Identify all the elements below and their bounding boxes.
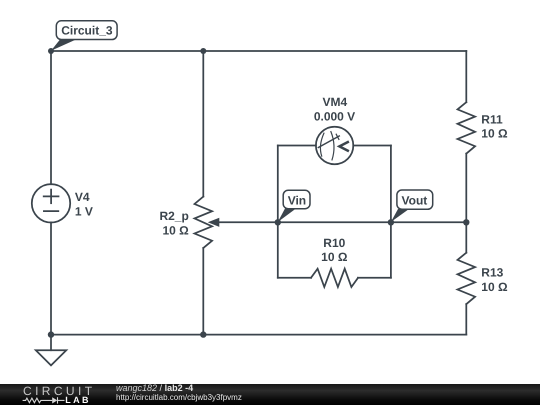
resistor R11 bbox=[458, 102, 476, 153]
junction: middle-right node bbox=[463, 219, 469, 225]
potentiometer R2_p bbox=[195, 197, 220, 248]
wire: R10 left lead bbox=[278, 277, 311, 279]
junction: bottom node at R2_p bbox=[200, 331, 206, 337]
node label Vout bbox=[391, 190, 433, 222]
svg-text:10 Ω: 10 Ω bbox=[321, 250, 348, 264]
svg-text:Vout: Vout bbox=[402, 194, 428, 208]
svg-text:10 Ω: 10 Ω bbox=[481, 280, 508, 294]
svg-text:R13: R13 bbox=[481, 266, 503, 280]
footer url line bbox=[116, 393, 242, 402]
wire: measurement loop left vertical bbox=[277, 146, 279, 278]
wire: measurement loop right vertical bbox=[390, 146, 392, 278]
wire: bottom rail bbox=[51, 334, 466, 336]
CircuitLab logo bbox=[0, 384, 100, 405]
svg-text:0.000 V: 0.000 V bbox=[314, 110, 355, 124]
junction: bottom-left node bbox=[48, 331, 54, 337]
node flag Circuit_3 bbox=[51, 21, 117, 51]
svg-text:V4: V4 bbox=[75, 190, 90, 204]
wire: right rail between R11 and middle node bbox=[465, 154, 467, 223]
node label Vin bbox=[278, 190, 310, 222]
ground bbox=[36, 335, 67, 366]
svg-text:10 Ω: 10 Ω bbox=[481, 127, 508, 141]
junction: top node at R2_p bbox=[200, 48, 206, 54]
svg-text:VM4: VM4 bbox=[323, 95, 348, 109]
wire: right rail bottom segment bbox=[465, 304, 467, 335]
wire: left rail upper segment bbox=[50, 51, 52, 184]
footer credit line bbox=[116, 384, 193, 393]
wire: left rail lower segment bbox=[50, 222, 52, 334]
wire: right rail between middle node and R13 bbox=[465, 222, 467, 252]
wire: VM4 right lead bbox=[353, 145, 391, 147]
svg-text:R11: R11 bbox=[481, 112, 503, 126]
wire: middle rail (wiper to right rail) bbox=[216, 221, 466, 223]
wire: R10 right lead bbox=[358, 277, 391, 279]
svg-text:10 Ω: 10 Ω bbox=[162, 223, 189, 237]
voltmeter VM4 bbox=[316, 127, 353, 164]
resistor R13 bbox=[458, 253, 476, 304]
voltage source V4 bbox=[32, 184, 70, 222]
svg-text:Vin: Vin bbox=[288, 193, 306, 207]
svg-text:R10: R10 bbox=[323, 236, 345, 250]
svg-text:R2_p: R2_p bbox=[159, 209, 188, 223]
junction: node Vout bbox=[388, 219, 394, 225]
junction: node Vin bbox=[275, 219, 281, 225]
wire: top rail bbox=[51, 50, 466, 52]
wire: R2_p lower lead bbox=[202, 248, 204, 335]
resistor R10 bbox=[311, 269, 358, 287]
svg-text:LAB: LAB bbox=[65, 395, 91, 405]
svg-text:1 V: 1 V bbox=[75, 204, 93, 218]
footer banner bbox=[0, 384, 540, 405]
wire: right rail top segment bbox=[465, 51, 467, 102]
svg-text:Circuit_3: Circuit_3 bbox=[61, 24, 113, 38]
wire: R2_p upper lead bbox=[202, 51, 204, 197]
junction: top-left node bbox=[48, 48, 54, 54]
wire: VM4 left lead bbox=[278, 145, 316, 147]
